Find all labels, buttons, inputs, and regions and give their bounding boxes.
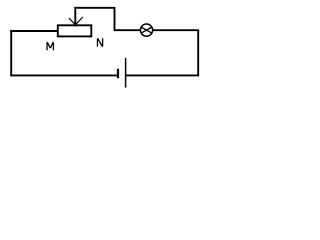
wiper arrowhead barbs [69, 17, 83, 26]
wire: bottom left to battery [10, 74, 118, 76]
label N [97, 38, 102, 46]
wire: lamp right to right side [153, 29, 200, 31]
lamp L1 cross [141, 27, 152, 33]
rheostat R1 body [58, 25, 92, 36]
wire: wiper stem vertical [74, 7, 76, 25]
wire: M terminal to left side [10, 30, 58, 32]
wire: battery to bottom right [126, 74, 199, 76]
battery B1 long plate (positive) [125, 58, 127, 88]
label M [47, 42, 53, 50]
wire: right vertical [197, 30, 199, 76]
lamp L1 circle [140, 24, 152, 36]
wire: top horizontal [74, 7, 115, 9]
wire: down-leg vertical [114, 8, 116, 30]
wire: left vertical [10, 30, 12, 76]
battery B1 short plate (negative) [117, 69, 119, 78]
wire: lamp left to down-leg [114, 29, 141, 31]
